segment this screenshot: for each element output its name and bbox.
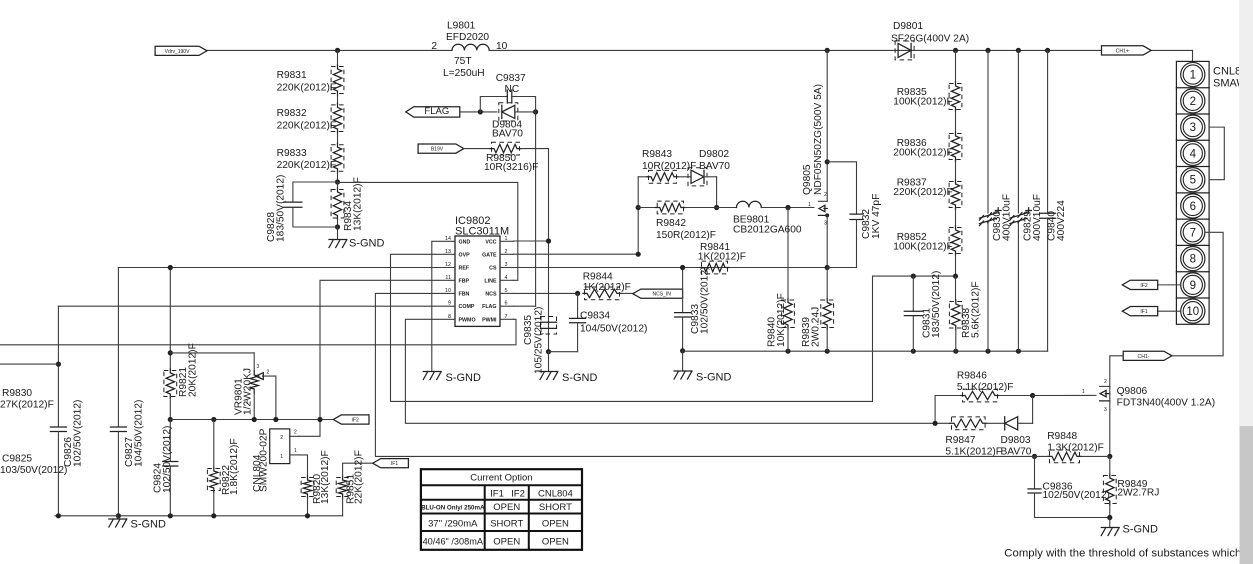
svg-text:SLC3011M: SLC3011M: [455, 226, 509, 238]
svg-text:SHORT: SHORT: [539, 502, 572, 513]
svg-text:FBP: FBP: [459, 278, 470, 284]
svg-text:5.6K(2012)F: 5.6K(2012)F: [971, 281, 982, 338]
svg-text:40/46" /308mA: 40/46" /308mA: [423, 537, 484, 547]
svg-text:400V10uF: 400V10uF: [1002, 194, 1013, 241]
svg-text:R9846: R9846: [957, 371, 987, 382]
svg-text:Comply with the threshold of s: Comply with the threshold of substances …: [1004, 548, 1251, 560]
svg-text:13K(2012)F: 13K(2012)F: [320, 450, 331, 504]
svg-text:10: 10: [496, 41, 508, 52]
svg-text:1/2W20KJ: 1/2W20KJ: [243, 368, 254, 415]
svg-text:1: 1: [1082, 389, 1085, 395]
svg-text:1: 1: [505, 236, 508, 242]
svg-text:NC: NC: [505, 84, 520, 95]
svg-text:BLU-ON Only/ 250mA: BLU-ON Only/ 250mA: [421, 505, 485, 512]
svg-text:9: 9: [1190, 280, 1196, 292]
svg-text:PWMO: PWMO: [459, 317, 476, 323]
svg-text:R9833: R9833: [277, 148, 307, 159]
svg-text:IF1: IF1: [391, 461, 398, 467]
svg-text:220K(2012)F: 220K(2012)F: [277, 121, 336, 132]
svg-text:IF2: IF2: [352, 418, 359, 424]
svg-text:20K(2012)F: 20K(2012)F: [187, 343, 198, 397]
svg-text:FLAG: FLAG: [482, 304, 496, 310]
svg-text:Current Option: Current Option: [470, 473, 532, 484]
svg-text:22K(2012)F: 22K(2012)F: [354, 450, 365, 504]
svg-text:8: 8: [448, 314, 451, 320]
svg-text:6: 6: [1190, 201, 1196, 213]
svg-text:R9848: R9848: [1047, 431, 1077, 442]
svg-text:7: 7: [1190, 227, 1196, 239]
svg-text:103/50V(2012): 103/50V(2012): [0, 465, 67, 476]
svg-text:10R(2012)F: 10R(2012)F: [642, 161, 696, 172]
svg-text:220K(2012)F: 220K(2012)F: [277, 83, 336, 94]
svg-text:10: 10: [445, 288, 451, 294]
svg-text:1: 1: [294, 448, 297, 454]
svg-text:75T: 75T: [454, 56, 472, 67]
svg-text:L9801: L9801: [447, 21, 476, 32]
svg-text:220K(2012)F: 220K(2012)F: [893, 187, 952, 198]
svg-text:102/50V(2012): 102/50V(2012): [73, 400, 84, 467]
svg-text:3: 3: [257, 364, 260, 370]
svg-text:BAV70: BAV70: [699, 161, 730, 172]
svg-text:2: 2: [505, 249, 508, 255]
svg-text:7: 7: [505, 314, 508, 320]
svg-text:2: 2: [431, 41, 437, 52]
svg-text:27K(2012)F: 27K(2012)F: [0, 400, 54, 411]
svg-text:S-GND: S-GND: [131, 519, 167, 531]
svg-text:C9834: C9834: [580, 311, 610, 322]
svg-text:D9803: D9803: [1001, 435, 1031, 446]
svg-text:R9847: R9847: [945, 435, 975, 446]
svg-text:2: 2: [280, 435, 283, 441]
svg-text:1.3K(2012)F: 1.3K(2012)F: [1047, 443, 1104, 454]
svg-text:IF2: IF2: [1140, 283, 1147, 289]
svg-text:13: 13: [445, 249, 451, 255]
svg-text:104/50V(2012): 104/50V(2012): [580, 324, 647, 335]
svg-text:S-GND: S-GND: [349, 238, 385, 250]
svg-text:R9830: R9830: [2, 388, 32, 399]
svg-text:105/25V(2012): 105/25V(2012): [534, 307, 545, 374]
svg-text:VCC: VCC: [485, 239, 496, 245]
svg-text:R9832: R9832: [277, 108, 307, 119]
svg-text:NDF05N50ZG(500V 5A): NDF05N50ZG(500V 5A): [813, 84, 824, 195]
svg-text:12: 12: [445, 262, 451, 268]
svg-text:OPEN: OPEN: [542, 537, 569, 548]
svg-text:CH1+: CH1+: [1116, 48, 1129, 54]
svg-text:OPEN: OPEN: [493, 502, 520, 513]
svg-text:NCS_IN: NCS_IN: [653, 292, 672, 298]
svg-text:S-GND: S-GND: [562, 372, 598, 384]
svg-text:10: 10: [1186, 306, 1199, 318]
svg-text:C9835: C9835: [523, 315, 534, 345]
svg-text:100K(2012)F: 100K(2012)F: [893, 97, 952, 108]
svg-text:150R(2012)F: 150R(2012)F: [656, 230, 716, 241]
svg-text:D9802: D9802: [699, 149, 729, 160]
svg-text:3: 3: [505, 262, 508, 268]
svg-text:SHORT: SHORT: [490, 519, 523, 530]
svg-text:4: 4: [505, 275, 508, 281]
svg-text:CNL804: CNL804: [538, 489, 573, 500]
svg-text:R9844: R9844: [583, 272, 613, 283]
svg-text:37" /290mA: 37" /290mA: [428, 519, 478, 530]
svg-text:Q9805: Q9805: [802, 164, 813, 195]
svg-text:400V10uF: 400V10uF: [1032, 194, 1043, 241]
svg-text:Q9806: Q9806: [1117, 386, 1148, 397]
svg-text:1.8K(2012)F: 1.8K(2012)F: [229, 438, 240, 495]
svg-text:5.1K(2012)F: 5.1K(2012)F: [945, 447, 1002, 458]
svg-text:SF26G(400V 2A): SF26G(400V 2A): [891, 34, 969, 45]
svg-text:5: 5: [1190, 175, 1196, 187]
svg-text:LINE: LINE: [484, 278, 497, 284]
svg-text:2: 2: [294, 430, 297, 436]
svg-text:14: 14: [445, 236, 451, 242]
svg-text:C9837: C9837: [496, 73, 526, 84]
svg-text:2: 2: [824, 192, 827, 198]
svg-text:COMP: COMP: [459, 304, 475, 310]
svg-text:1: 1: [1190, 70, 1196, 82]
svg-text:C9825: C9825: [2, 454, 32, 465]
svg-text:B19V: B19V: [431, 147, 444, 153]
svg-text:13K(2012)F: 13K(2012)F: [353, 177, 364, 231]
svg-text:2W2.7RJ: 2W2.7RJ: [1117, 488, 1159, 499]
svg-text:GATE: GATE: [482, 252, 497, 258]
svg-text:1K(2012)F: 1K(2012)F: [583, 282, 631, 293]
svg-text:183/50V(2012): 183/50V(2012): [276, 175, 287, 242]
svg-text:183/50V(2012): 183/50V(2012): [931, 271, 942, 338]
svg-text:R9842: R9842: [656, 218, 686, 229]
svg-text:100K(2012)F: 100K(2012)F: [893, 242, 952, 253]
svg-text:11: 11: [445, 275, 451, 281]
svg-text:IF1: IF1: [1140, 309, 1147, 315]
svg-text:3: 3: [1104, 407, 1107, 413]
svg-text:220K(2012)F: 220K(2012)F: [277, 160, 336, 171]
svg-text:1KV 47pF: 1KV 47pF: [871, 194, 882, 239]
svg-text:2W0.24J: 2W0.24J: [810, 307, 821, 347]
svg-text:S-GND: S-GND: [1123, 524, 1159, 536]
svg-text:400V224: 400V224: [1056, 200, 1067, 241]
svg-text:R9843: R9843: [642, 149, 672, 160]
svg-text:PWMI: PWMI: [482, 317, 497, 323]
svg-text:OPEN: OPEN: [542, 519, 569, 530]
svg-text:GND: GND: [459, 239, 471, 245]
svg-text:102/50V(2012): 102/50V(2012): [162, 426, 173, 493]
svg-text:1: 1: [280, 454, 283, 460]
svg-text:IF1: IF1: [490, 489, 504, 500]
svg-text:10K(2012)F: 10K(2012)F: [776, 293, 787, 347]
svg-text:S-GND: S-GND: [446, 372, 482, 384]
svg-text:NCS: NCS: [485, 291, 497, 297]
svg-text:L=250uH: L=250uH: [443, 68, 485, 79]
svg-text:OPEN: OPEN: [493, 537, 520, 548]
svg-text:FLAG: FLAG: [424, 106, 449, 117]
svg-text:REF: REF: [459, 266, 470, 272]
svg-text:CB2012GA600: CB2012GA600: [733, 225, 802, 236]
svg-text:S-GND: S-GND: [696, 372, 732, 384]
svg-text:R9831: R9831: [277, 70, 307, 81]
svg-text:1: 1: [808, 202, 811, 208]
svg-text:SMW200-02P: SMW200-02P: [259, 428, 270, 492]
svg-text:9: 9: [448, 301, 451, 307]
svg-text:2: 2: [1190, 96, 1196, 108]
svg-text:8: 8: [1190, 254, 1196, 266]
svg-text:CS: CS: [489, 266, 497, 272]
svg-text:6: 6: [505, 301, 508, 307]
svg-text:2: 2: [1104, 379, 1107, 385]
svg-text:104/50V(2012): 104/50V(2012): [134, 400, 145, 467]
svg-text:IF2: IF2: [511, 489, 525, 500]
svg-text:Vdrv_190V: Vdrv_190V: [165, 49, 190, 55]
svg-text:200K(2012)F: 200K(2012)F: [893, 148, 952, 159]
svg-text:FDT3N40(400V 1.2A): FDT3N40(400V 1.2A): [1117, 398, 1216, 409]
svg-text:5.1K(2012)F: 5.1K(2012)F: [957, 382, 1014, 393]
svg-text:102/50V(2012): 102/50V(2012): [700, 267, 711, 334]
svg-text:FBN: FBN: [459, 291, 470, 297]
svg-text:5: 5: [505, 288, 508, 294]
svg-text:OVP: OVP: [459, 252, 471, 258]
svg-text:3: 3: [824, 221, 827, 227]
svg-text:BAV70: BAV70: [1001, 447, 1032, 458]
svg-text:2: 2: [267, 370, 270, 376]
svg-text:10R(3216)F: 10R(3216)F: [484, 162, 538, 173]
svg-text:EFD2020: EFD2020: [446, 32, 489, 43]
svg-text:3: 3: [1190, 122, 1196, 134]
svg-text:D9801: D9801: [893, 21, 923, 32]
svg-text:102/50V(2012): 102/50V(2012): [1043, 490, 1110, 501]
svg-text:4: 4: [1190, 148, 1197, 160]
svg-text:CH1-: CH1-: [1137, 354, 1149, 360]
svg-text:BAV70: BAV70: [492, 129, 523, 140]
